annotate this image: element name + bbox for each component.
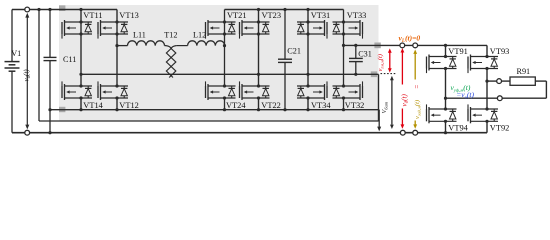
resistor R91 <box>510 77 535 85</box>
wire: bridge bottom rail <box>50 109 379 111</box>
svg-text:R91: R91 <box>517 67 531 76</box>
svg-text:VT33: VT33 <box>347 11 367 20</box>
wire: output leg2 <box>486 45 488 56</box>
wire: top bus left bridge <box>12 9 117 11</box>
svg-text:VT34: VT34 <box>311 101 331 110</box>
svg-text:VT92: VT92 <box>490 123 510 132</box>
svg-text:V1: V1 <box>11 49 21 58</box>
wire: top bus middle/right bridges <box>225 9 344 11</box>
wire: box right edge drop <box>378 74 380 121</box>
wire: return rail y74 <box>81 73 379 75</box>
transistor VT91 <box>429 56 457 58</box>
svg-text:VT94: VT94 <box>448 123 468 132</box>
wire: C31 branch <box>355 45 357 58</box>
transistor VT24 <box>208 85 236 87</box>
svg-text:VT12: VT12 <box>119 101 139 110</box>
gray converter box <box>59 5 379 121</box>
svg-text:T12: T12 <box>164 31 177 40</box>
svg-text:VT93: VT93 <box>490 47 510 56</box>
transistor VT92 <box>471 108 499 110</box>
transistor VT14 <box>65 85 93 87</box>
annotation black arrow Vbat <box>391 79 393 124</box>
svg-text:vзад,м(t): vзад,м(t) <box>414 100 423 119</box>
wire: leg C <box>224 10 226 87</box>
transistor VT23 <box>242 21 270 23</box>
inductor L11 <box>117 45 128 47</box>
annotation olive arrow D with two-color label <box>414 53 416 80</box>
dotted potential line <box>381 73 397 75</box>
transistor VT13 <box>101 21 129 23</box>
svg-text:VT11: VT11 <box>83 11 102 20</box>
svg-text:VT31: VT31 <box>311 11 331 20</box>
svg-text:VT14: VT14 <box>83 101 103 110</box>
transformer T12 twisted pair <box>166 46 171 49</box>
transistor VT33 <box>333 21 361 23</box>
wire: load top <box>487 80 497 82</box>
wire: output leg1 <box>445 45 447 56</box>
wire: leg F <box>343 10 345 87</box>
wire: leg A <box>80 10 82 87</box>
svg-text:=: = <box>414 84 421 89</box>
wire: leg E <box>307 10 309 87</box>
wire: output top rail <box>344 44 446 46</box>
wire: load bottom <box>502 97 546 99</box>
inductor L12 <box>176 45 187 47</box>
annotation red arrow C with inline label <box>401 52 403 85</box>
svg-text:vд(t): vд(t) <box>400 93 410 106</box>
wire: output bridge top bus <box>446 44 488 46</box>
wire: bottom bus <box>12 132 487 134</box>
svg-text:VT22: VT22 <box>261 101 281 110</box>
transistor VT22 <box>242 85 270 87</box>
wire: C21 branch <box>284 10 286 60</box>
wire: C11 branch <box>49 10 51 58</box>
battery V1 <box>11 10 13 62</box>
svg-text:L12: L12 <box>193 31 206 40</box>
annotation red arrow A <box>389 52 391 69</box>
port top circles <box>400 43 405 48</box>
svg-text:vL(t)=0: vL(t)=0 <box>399 33 421 44</box>
svg-text:C11: C11 <box>63 55 76 64</box>
annotation arrow v_b <box>26 17 28 127</box>
svg-text:vб(t): vб(t) <box>23 69 33 82</box>
svg-text:L11: L11 <box>133 31 146 40</box>
transistor VT21 <box>208 21 236 23</box>
node: input port top <box>25 7 30 12</box>
svg-text:VT24: VT24 <box>226 101 246 110</box>
svg-text:C21: C21 <box>287 47 301 56</box>
transistor VT32 <box>333 85 361 87</box>
wire: leg D <box>258 10 260 87</box>
wire: y121 line <box>39 120 379 122</box>
wire: load right drop <box>545 81 547 98</box>
wire: x40 vertical from top bus <box>38 10 40 122</box>
node: input port bottom <box>25 130 30 135</box>
svg-text:C31: C31 <box>358 49 372 58</box>
transistor VT12 <box>101 85 129 87</box>
transistor VT94 <box>429 108 457 110</box>
transistor VT31 <box>297 21 325 23</box>
svg-text:VT13: VT13 <box>119 11 139 20</box>
svg-text:VT23: VT23 <box>262 11 282 20</box>
capacitor C21 <box>278 58 292 60</box>
capacitor C31 <box>349 57 363 59</box>
svg-text:VT32: VT32 <box>345 101 365 110</box>
capacitor C11 <box>44 56 57 58</box>
svg-text:Vбат: Vбат <box>381 101 389 113</box>
svg-text:VT21: VT21 <box>227 11 247 20</box>
wire: rail1 drop arrow to bottom bus <box>378 110 380 128</box>
transistor VT34 <box>297 85 325 87</box>
transistor VT93 <box>471 56 499 58</box>
svg-text:VT91: VT91 <box>448 47 468 56</box>
wire: leg B <box>116 10 118 87</box>
transistor VT11 <box>65 21 93 23</box>
port bottom circles <box>400 130 405 135</box>
